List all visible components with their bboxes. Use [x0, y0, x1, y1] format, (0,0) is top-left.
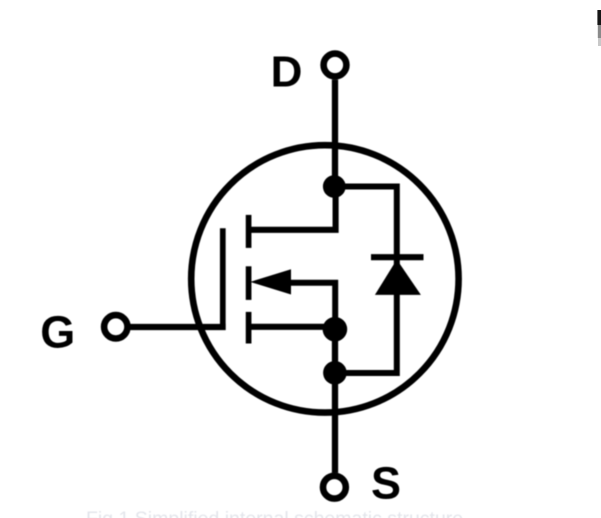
svg-text:S: S [371, 457, 401, 508]
svg-text:G: G [40, 307, 75, 358]
svg-text:D: D [271, 47, 303, 96]
svg-text:Fig.1 Simplified internal sch: Fig.1 Simplified internal schematic stru… [86, 508, 463, 518]
